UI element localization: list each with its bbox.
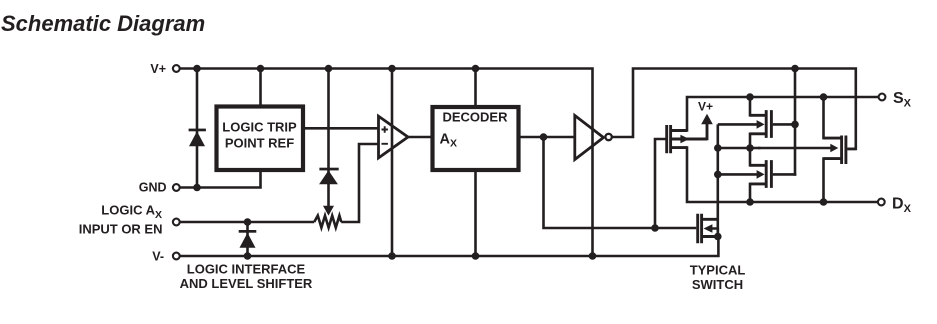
svg-text:DECODER: DECODER [442,110,508,125]
wire V+ rail (top, turns down at right to V- rail) [179,67,592,256]
terminal logic input [173,219,180,226]
wire M2 source down to mid net [749,133,752,149]
wire decoder bottom pin [474,172,477,257]
wire diode D2 branch (V+ down to trip arrow) [327,69,330,208]
wire M3 source down to Dx [749,183,752,202]
svg-text:V-: V- [152,250,164,264]
transistor M2 (series switch upper) [750,110,771,138]
wire M3 drain up to mid net [749,148,752,167]
junction decoder output / drive [540,133,548,141]
junction mid net / M2-M3 [746,144,754,152]
junction V+ rail / ref box [257,65,265,73]
terminal GND [173,184,180,191]
wire GND to ref box [180,172,261,189]
svg-text:LOGIC INTERFACE: LOGIC INTERFACE [187,262,306,277]
junction M2 gate / gate vertical [791,121,799,129]
terminal Dx [878,199,885,206]
svg-text:POINT REF: POINT REF [225,136,294,151]
svg-text:Schematic Diagram: Schematic Diagram [1,11,205,36]
junction V- rail / level shifter vertical [589,252,597,260]
svg-text:AX: AX [440,132,458,150]
svg-text:SX: SX [893,90,912,110]
junction V+ rail / D2 [325,65,333,73]
wire resistor to comparator inverting input [341,144,378,223]
wire ref box output to comparator non-inverting input [305,127,379,130]
junction Dx / M4 source [820,198,828,206]
svg-text:INPUT OR EN: INPUT OR EN [79,221,163,236]
wire input clamp diode branch [246,222,249,256]
wire gate vertical for M2/M3 from drive net [794,69,797,176]
svg-text:V+: V+ [698,100,713,114]
wire M3 body arrow line [718,173,762,176]
box DECODER Ax [433,107,519,170]
junction Sx / M2 drain [746,93,754,101]
wire V- rail (bottom) [179,237,718,258]
junction mid net / body rail [714,144,722,152]
wire level-shift drive (decoder output down and right to switch) [542,137,696,228]
junction Sx / M4 drain [820,93,828,101]
junction drive net / gate vertical [791,65,799,73]
wire body rail of M2/M3 down to M5 [716,124,719,236]
box LOGIC TRIP POINT REF [217,107,304,171]
junction V- rail / supply vertical [388,252,396,260]
inverter U2 output bubble [605,134,611,140]
inverter U2 [575,116,604,160]
svg-text:V+: V+ [150,62,166,76]
wire M2 drain up to Sx [749,97,752,117]
wire M1 source down to Dx line, Dx line [686,146,878,202]
terminal V- [173,253,180,260]
junction GND wire / D1 [193,184,201,192]
svg-text:TYPICAL: TYPICAL [690,263,746,278]
junction M5 source / body / V- [714,233,722,241]
svg-text:LOGIC AX: LOGIC AX [101,203,162,221]
wire supply vertical through comparator [391,69,394,257]
transistor M3 (series switch lower) [750,160,771,188]
wire ref box top pin [259,69,262,105]
wire inverter output / switch drive net (top-right segment) [612,67,857,149]
wire mid net (M2 source / M3 drain / M4 body) [718,147,761,150]
wire M4 gate lead [847,148,856,151]
wire logic input to resistor [180,221,315,224]
svg-text:AND LEVEL SHIFTER: AND LEVEL SHIFTER [180,276,313,291]
wire M4 source down to Dx [822,157,825,202]
op-amp U1 minus sign [382,143,388,145]
transistor M1 (PMOS, body to V+) [667,125,687,153]
svg-text:LOGIC TRIP: LOGIC TRIP [222,120,297,135]
wire M2 body arrow line [718,123,762,126]
wire decoder output to inverter [519,136,574,139]
wire M5 body arrow to source [710,227,718,236]
wire diode D1 branch (V+ to GND wire) [196,69,199,188]
diode D2 with arrow tap onto resistor [319,168,339,216]
wire M3 gate lead [773,173,797,176]
junction input wire / D3 [244,218,252,226]
op-amp U1 plus sign [382,126,388,132]
resistor R1 (trip point divider) [314,216,341,228]
terminal Sx [879,94,886,101]
wire M4 drain up to Sx [822,97,825,139]
junction M3 body / body rail [714,171,722,179]
transistor M5 (pull-down, typical switch) [698,214,718,244]
diode D3 (input clamp to V-) [239,230,257,248]
junction V- rail / decoder pin [472,252,480,260]
transistor M4 (output switch) [824,136,846,165]
junction Dx / M3 source [746,198,754,206]
wire M2 gate lead [773,123,795,126]
svg-text:DX: DX [892,195,912,215]
diode D1 [189,129,206,147]
wire decoder top pin [474,69,477,106]
svg-text:GND: GND [139,181,167,195]
svg-text:SWITCH: SWITCH [692,277,743,292]
wire comparator output to decoder [407,136,433,139]
junction V+ rail / decoder pin [472,65,480,73]
junction drive line / M1 gate [651,224,659,232]
transistor M1 gate wire down to drive line [654,139,666,228]
terminal V+ [173,65,180,72]
wire M1 drain up to Sx line, Sx line [686,97,879,132]
junction V- rail / D3 [244,252,252,260]
junction V+ rail / supply vertical [388,65,396,73]
op-amp U1 comparator [379,116,409,158]
junction V+ rail / D1 [193,65,201,73]
transistor M1 body arrow to V+ [672,119,707,140]
